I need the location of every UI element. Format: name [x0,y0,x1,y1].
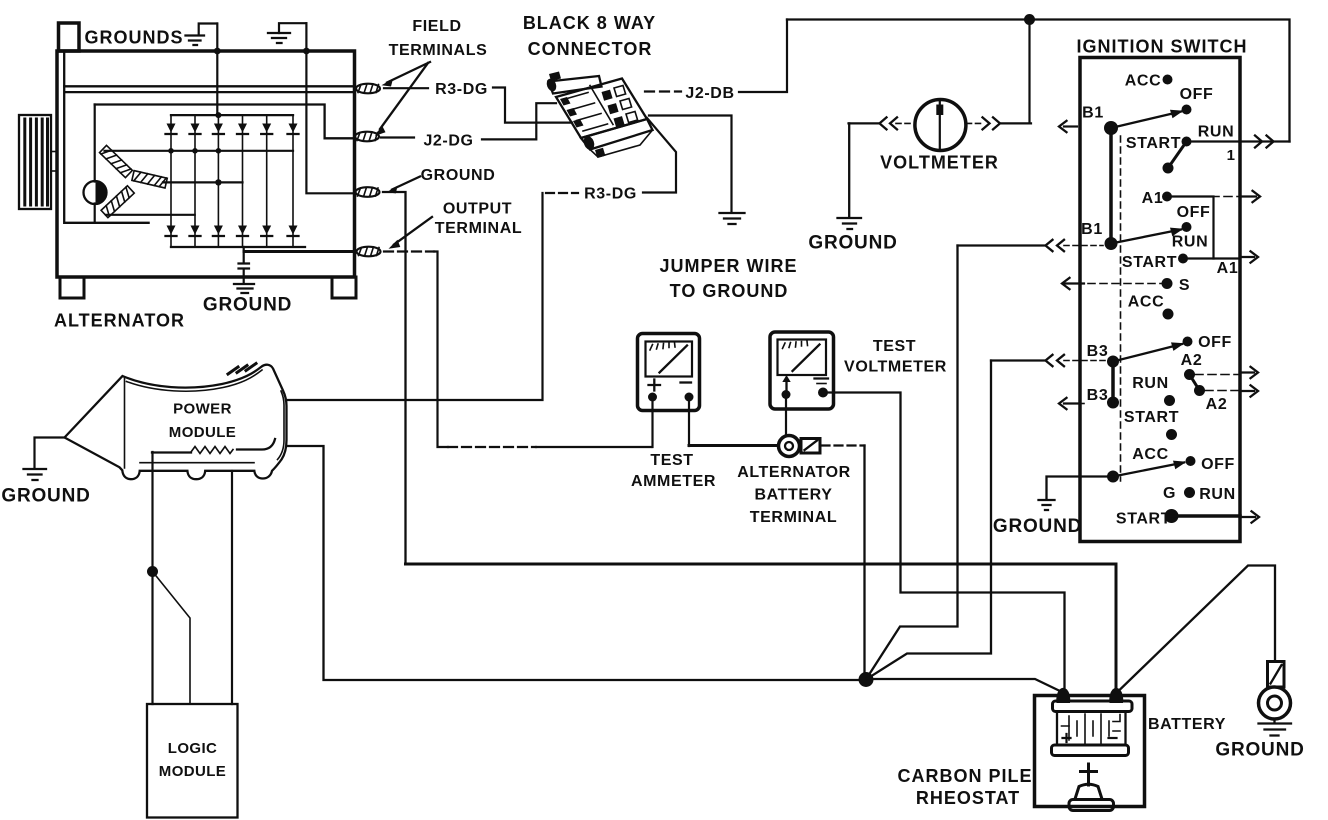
wire R3-DG feed to power module [288,193,543,400]
test ammeter window [646,342,693,377]
node phase A col1 [168,148,174,154]
wire power module to battery junction [288,446,860,680]
node OFF 3 [1183,337,1193,347]
node main battery junction [859,672,874,687]
node START 3 [1166,429,1177,440]
svg-text:MODULE: MODULE [159,763,226,780]
wire rotor lower stub [94,204,96,223]
stator winding bar right [132,171,167,188]
wire connector to J2-DB label [645,90,681,92]
ground symbol alternator top-left [186,36,205,46]
wire S dashed to arrow [1088,283,1167,285]
wire tie B3 to B3 lower [1111,362,1115,403]
svg-text:R3-DG: R3-DG [584,186,637,203]
chevrons RUN output [1255,136,1274,148]
pointer arrow to ground terminal [392,177,420,190]
svg-text:VOLTMETER: VOLTMETER [844,359,947,376]
field terminal 2 [355,132,379,142]
svg-text:RHEOSTAT: RHEOSTAT [916,788,1020,808]
wire A1 dashed output [1172,196,1240,198]
wire battery negative to chassis ground [1119,566,1275,691]
test ammeter body [638,334,700,411]
svg-text:ACC: ACC [1132,446,1168,463]
svg-text:BLACK 8 WAY: BLACK 8 WAY [523,13,656,33]
node ACC top [1163,75,1173,85]
switch arm pivot to OFF4 [1113,463,1184,477]
svg-text:GROUND: GROUND [808,233,897,254]
wire ammeter minus lead [688,399,690,446]
node ACC 2 [1163,309,1174,320]
test voltmeter terminal plus [782,390,791,399]
svg-text:B3: B3 [1087,343,1109,360]
svg-text:GROUND: GROUND [421,167,496,184]
negative bus bar [171,246,305,248]
battery post negative [1109,688,1123,703]
svg-text:A1: A1 [1142,190,1164,207]
arrow A1 output [1240,195,1256,197]
voltmeter needle [939,101,941,149]
node arm end [1163,163,1174,174]
ignition switch dashed column [1120,136,1122,481]
wire terminal1 to R3-DG label [384,87,428,89]
wire ground terminal to battery negative (long run) [383,192,406,564]
svg-text:B1: B1 [1081,221,1103,238]
ground symbol power module [24,469,47,480]
test voltmeter body [770,332,834,409]
switch arm A2 to A2 lower [1190,375,1200,391]
test ammeter terminal plus [648,393,657,402]
svg-text:RUN: RUN [1198,124,1234,141]
pointer arrow to field terminal 1 [387,62,430,83]
node B1 [1104,121,1118,135]
svg-text:BATTERY: BATTERY [1148,716,1226,733]
connector body [545,72,652,159]
wire tie B1 to B1 lower [1109,128,1113,244]
arrow B1 row pointing left [1064,125,1077,127]
svg-text:CARBON PILE: CARBON PILE [897,766,1032,786]
svg-text:TO GROUND: TO GROUND [670,281,789,301]
test voltmeter terminal minus [818,388,828,398]
rheostat bell [1075,784,1102,799]
power module top hatch [228,364,256,375]
battery minus mark [1109,737,1117,739]
node phase B col3 [215,179,221,185]
wire power module pin A to logic module [151,452,153,704]
svg-text:OFF: OFF [1180,86,1214,103]
svg-text:START: START [1124,409,1179,426]
power module resistor line [152,439,275,453]
svg-text:START: START [1122,254,1177,271]
chevrons voltmeter left [880,117,898,129]
stator winding bar lower-left [101,186,134,218]
wire ammeter plus lead [651,399,653,447]
power module body [65,365,287,479]
pulley [19,115,51,209]
wire ammeter minus to battery terminal [689,444,778,447]
node OFF 4 [1186,456,1196,466]
wire ignition B1 feed [867,246,958,679]
test voltmeter needle [793,345,820,372]
svg-text:R3-DG: R3-DG [435,81,488,98]
test ammeter scale ticks [650,343,675,351]
wire pivot to ground [1047,477,1114,500]
wire J2-DB to top run [739,20,787,93]
node pivot bottom [1107,471,1119,483]
svg-text:GROUND: GROUND [203,295,292,316]
svg-text:B1: B1 [1082,105,1104,122]
svg-text:RUN: RUN [1199,486,1235,503]
wire field line rotor to terminal J2-DG [95,105,354,139]
node B3 [1107,356,1119,368]
ground eyelet ring [1259,687,1291,719]
ignition switch box [1080,58,1240,542]
node OFF 2 [1182,222,1192,232]
wire pin A branch diagonal [153,572,191,705]
stator top rail b [66,91,352,93]
wire output terminal to test ammeter plus [384,250,434,252]
node B1 lower [1105,237,1118,250]
svg-text:GROUNDS: GROUNDS [84,28,183,48]
node bus col3 [215,112,221,118]
svg-text:AMMETER: AMMETER [631,473,716,490]
svg-text:IGNITION SWITCH: IGNITION SWITCH [1077,37,1248,57]
switch arm B1 to OFF [1111,112,1181,129]
node top run junction [1024,14,1035,25]
test voltmeter up-arrow [785,381,787,391]
output terminal [357,247,381,257]
svg-text:J2-DG: J2-DG [423,133,473,150]
wire A2 lower dashed output [1205,390,1240,392]
svg-text:POWER: POWER [173,401,232,418]
svg-text:GROUND: GROUND [1215,740,1304,761]
svg-text:OFF: OFF [1177,204,1211,221]
wire junction to battery positive post [871,679,1062,692]
wire battery terminal to junction [863,446,865,680]
node junction box top col3 [214,48,221,55]
battery bottom cap [1052,745,1129,756]
svg-text:TERMINAL: TERMINAL [750,509,837,526]
wire power module to ground [35,438,65,469]
ground slash box [1268,662,1285,688]
svg-text:CONNECTOR: CONNECTOR [528,39,653,59]
ground symbol alternator top-right [268,33,290,43]
battery plates [1069,714,1109,743]
battery terminal eyelet [779,436,800,457]
wire stator phase C [106,214,195,216]
ground symbol below alternator [234,284,254,293]
voltmeter circle [915,100,966,151]
node A2 lower [1194,385,1205,396]
svg-text:TERMINALS: TERMINALS [389,42,488,59]
wire connector to jumper ground [649,116,732,212]
power module inner outline [125,370,285,468]
svg-text:A2: A2 [1206,396,1228,413]
svg-text:LOGIC: LOGIC [168,740,218,757]
svg-text:A1: A1 [1217,260,1239,277]
svg-text:OUTPUT: OUTPUT [443,201,512,218]
node B3 lower [1107,397,1119,409]
svg-text:VOLTMETER: VOLTMETER [880,153,999,173]
positive bus bar [171,114,293,116]
wire voltmeter plus lead to battery terminal [785,396,787,435]
node phase A col3 [216,148,222,154]
switch arm B1 lower to OFF2 [1111,230,1181,244]
svg-text:RUN: RUN [1172,234,1208,251]
node RUN 4 [1184,487,1195,498]
alternator mounting ear [59,23,80,51]
svg-text:TEST: TEST [650,452,693,469]
wire terminal2 to J2-DG label [381,136,414,138]
svg-text:START: START [1126,135,1181,152]
test ammeter minus [681,381,692,383]
ground symbol ignition switch [1039,500,1055,510]
wire B3 lead with chevrons [991,359,1044,361]
svg-text:START: START [1116,511,1171,528]
node OFF top [1182,105,1192,115]
node A1 [1162,192,1172,202]
svg-text:ACC: ACC [1125,73,1161,90]
svg-text:OFF: OFF [1201,456,1235,473]
svg-text:G: G [1163,485,1176,502]
switch arm START lower stub [1168,142,1187,169]
diodes bottom row [167,226,298,235]
wire B1 lower lead with chevrons [958,244,1045,246]
svg-text:A2: A2 [1181,352,1203,369]
switch arm B3 to OFF3 [1113,344,1182,362]
test voltmeter minus [815,377,829,379]
ground symbol bottom-right [1259,720,1292,736]
battery terminal slash box [801,439,820,454]
node junction box top ground2 [303,48,310,55]
alternator housing [57,51,355,277]
wire rotor brush riser [94,105,96,182]
power module zigzag [191,447,233,454]
svg-text:ALTERNATOR: ALTERNATOR [737,464,851,481]
wire voltmeter left lead [849,122,879,124]
wire ignition B3 feed [867,361,991,679]
node RUN 3 [1164,395,1175,406]
wire output lead [244,250,354,253]
wire stator phase B [163,181,243,183]
svg-text:TEST: TEST [873,338,916,355]
svg-text:BATTERY: BATTERY [755,487,833,504]
stator top rail a [64,85,352,87]
wire voltmeter right lead [1001,122,1031,124]
node START 4 [1165,509,1179,523]
ground terminal [356,187,380,197]
ground symbol jumper wire [720,213,745,224]
svg-text:B3: B3 [1087,387,1109,404]
wire ground 2 riser down to ground terminal [306,23,354,193]
test ammeter terminal minus [685,393,694,402]
svg-text:MODULE: MODULE [169,424,236,441]
wire voltmeter minus to battery positive [827,393,1065,690]
battery plus mark [1063,734,1071,742]
svg-text:ALTERNATOR: ALTERNATOR [54,311,185,331]
rotor circle [84,181,107,204]
svg-text:OFF: OFF [1198,334,1232,351]
wire START2 output [1183,257,1240,259]
pointer arrow to output terminal [394,217,432,245]
logic module box [147,704,238,818]
node START top [1182,137,1192,147]
arrow B3 lower pointing left [1078,403,1084,405]
alternator foot left [60,277,84,298]
wire power module pin B to logic module [231,471,233,704]
alternator foot right [332,277,356,298]
wire A1 frame [1167,197,1214,259]
battery post positive [1056,688,1070,703]
svg-text:GROUND: GROUND [993,516,1082,537]
wire START4 output [1172,514,1241,518]
pulley hub [51,152,57,172]
stator frame left and bottom [64,52,148,223]
test ammeter plus [649,380,661,391]
svg-text:TERMINAL: TERMINAL [435,220,522,237]
svg-text:J2-DB: J2-DB [685,85,734,102]
svg-text:1: 1 [1227,147,1236,164]
node S [1162,278,1173,289]
svg-text:S: S [1179,277,1190,294]
svg-text:ACC: ACC [1128,294,1164,311]
rheostat cross [1081,764,1097,785]
wire battery terminal dashed lead [822,444,865,446]
rectifier columns [171,115,293,247]
svg-text:FIELD: FIELD [412,18,461,35]
wire A2 dashed output [1195,374,1240,376]
svg-text:GROUND: GROUND [1,486,90,507]
wire lower R3-DG dashes [546,192,578,194]
diodes top row [167,124,298,133]
wire J2-DG to connector [482,103,556,139]
wire R3-DG to connector [493,88,572,123]
wire ground stub to rectifier column 3 [216,24,218,116]
wire junction to voltmeter [1028,20,1030,124]
ground lead under alternator [239,247,250,283]
test ammeter needle [660,346,688,373]
node A2 [1184,369,1195,380]
wire RUN output [1187,140,1290,142]
svg-text:JUMPER WIRE: JUMPER WIRE [659,256,797,276]
battery top cap [1053,701,1133,712]
wire stator phase A [105,150,294,152]
stator winding bar upper-left [100,145,133,177]
chevrons voltmeter right [983,117,1001,129]
node pin A junction [147,566,158,577]
battery body [1057,712,1126,746]
wire voltmeter to ground [848,123,850,217]
ground symbol voltmeter [838,218,862,229]
node phase A col2 [192,148,198,154]
carbon pile loop [1035,696,1145,807]
test voltmeter window [778,340,827,376]
pointer arrow to field terminal 2 [380,63,428,129]
wire connector to lower R3-DG label [643,118,676,193]
svg-text:RUN: RUN [1132,375,1168,392]
field terminal 1 [356,84,380,94]
test voltmeter scale ticks [783,341,808,349]
wire top run to ignition RUN [787,20,1290,142]
node START 2 [1178,254,1188,264]
